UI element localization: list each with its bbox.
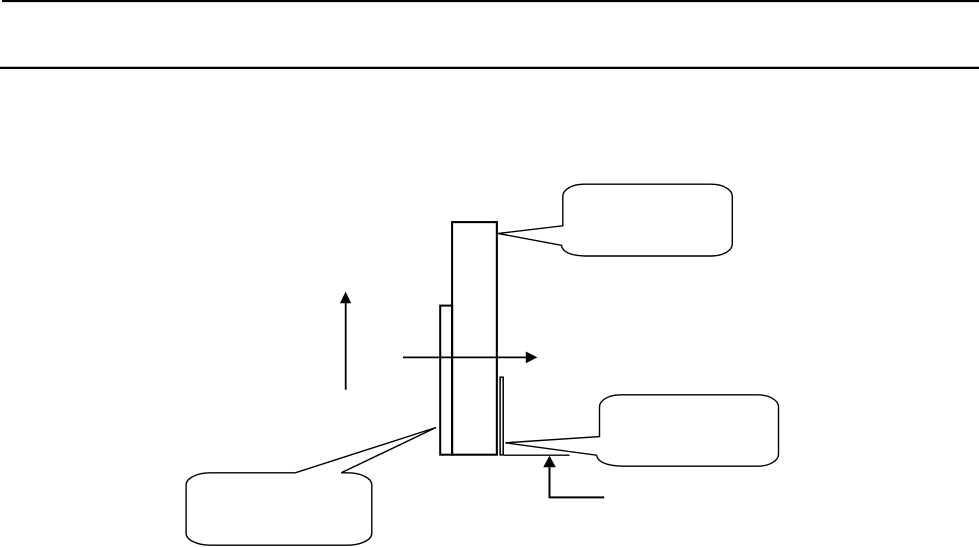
callout bubble 1 (top right) bbox=[498, 184, 732, 256]
left narrow rectangle bbox=[440, 306, 452, 455]
bottom up arrow with L-shaped leader bbox=[543, 456, 604, 498]
callout bubble 2 (right) bbox=[505, 395, 778, 466]
main tall rectangle bbox=[452, 222, 497, 455]
callout bubble 3 (bottom left) bbox=[186, 428, 436, 546]
header top rule bbox=[2, 0, 979, 2]
horizontal arrow bbox=[403, 352, 537, 364]
header bottom rule bbox=[0, 67, 979, 69]
vertical up arrow bbox=[340, 292, 351, 390]
baseline extension line bbox=[504, 454, 570, 456]
right narrow rectangle bbox=[500, 377, 503, 455]
